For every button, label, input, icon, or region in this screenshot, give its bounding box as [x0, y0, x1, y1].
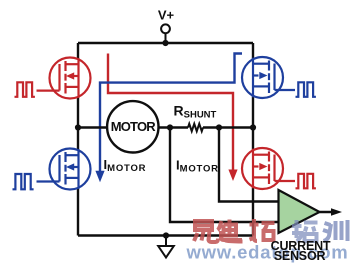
red current path arrowhead — [228, 170, 237, 182]
transistor Q1 (top-left red MOSFET) — [37, 58, 91, 99]
wire left rail — [77, 43, 79, 236]
amp output arrowhead — [331, 208, 342, 215]
PWM input Q4 — [296, 174, 316, 189]
ground — [158, 246, 174, 258]
node R shunt left dot — [167, 124, 173, 130]
wire bottom rail — [78, 234, 253, 236]
wire motor row right — [203, 126, 253, 128]
wire right rail — [252, 43, 254, 236]
wire top rail V+ — [78, 42, 253, 44]
wire sense lower (from R shunt left) — [170, 128, 279, 223]
transistor Q2 (top-right blue MOSFET) — [242, 57, 295, 98]
watermark chinese char 5 — [323, 220, 348, 241]
wire ground stub — [165, 236, 167, 247]
node right rail motor junction dot — [250, 124, 256, 130]
transistor Q4 (bottom-right red MOSFET) — [242, 148, 295, 189]
watermark chinese char 4 — [292, 220, 318, 241]
terminal V+ — [161, 24, 170, 33]
resistor R_SHUNT zigzag — [188, 124, 203, 131]
op-amp U1 current sense amplifier — [279, 190, 320, 233]
watermark chinese char 2 — [218, 220, 243, 242]
node R shunt right dot — [216, 124, 222, 130]
blue current path arrowhead — [95, 171, 104, 183]
transistor Q3 (bottom-left blue MOSFET) — [37, 149, 91, 190]
node ground junction dot — [163, 232, 169, 238]
red current path I1 — [108, 54, 233, 171]
motor M1 — [107, 101, 158, 152]
PWM input Q1 — [15, 82, 35, 97]
svg-text:V+: V+ — [158, 8, 175, 23]
wire V+ stub — [165, 33, 167, 43]
wire sense upper (from R shunt right) — [219, 128, 279, 202]
watermark chinese char 1 — [194, 221, 218, 242]
node left rail motor junction dot — [75, 124, 81, 130]
blue current path I2 — [100, 54, 242, 172]
svg-text:MOTOR: MOTOR — [111, 119, 157, 134]
node V+ junction dot — [162, 40, 168, 46]
PWM input Q2 — [296, 82, 316, 97]
svg-text:SENSOR: SENSOR — [274, 249, 326, 263]
wire amp output — [320, 211, 333, 214]
watermark chinese char 3 — [250, 219, 275, 241]
PWM input Q3 — [13, 174, 34, 189]
wire motor row left — [78, 126, 188, 128]
